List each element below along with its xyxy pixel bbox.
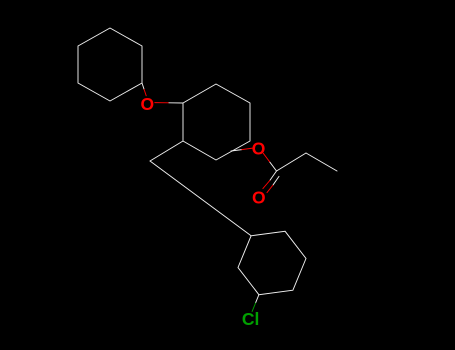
wire CH2-CH3 xyxy=(306,153,337,171)
wire C(mid ring)-CH2 benzylic xyxy=(150,141,183,161)
wire O2-C(carbonyl) white half xyxy=(270,162,277,171)
double bond C=O3 line 2 red half xyxy=(267,185,273,192)
wire C(ring3)-Cl green half xyxy=(252,303,255,311)
benzene ring C6 (top-left phenyl) xyxy=(78,28,142,101)
double bond C=O3 line 1 white half xyxy=(270,171,277,181)
svg-text:O: O xyxy=(140,94,154,114)
wire C(ring1)-O1 white half xyxy=(142,83,144,89)
wire C(ring1)-O1 red half at O xyxy=(144,89,146,95)
wire C(mid)-O2 ester red half xyxy=(242,148,253,150)
wire O2-C(carbonyl) red half xyxy=(263,153,270,162)
wire C(ring3)-Cl white half xyxy=(256,295,259,303)
wire O1-C(ring2) red half xyxy=(155,102,169,104)
double bond C=O3 line 2 white half xyxy=(273,176,279,185)
wire C(mid)-O2 ester white half xyxy=(231,150,242,151)
wire C(carbonyl)-CH2 xyxy=(277,153,307,171)
wire O1-C(ring2) white half xyxy=(169,102,183,104)
double bond C=O3 line 1 red half xyxy=(263,181,270,189)
cyclohexane ring C6 (bottom chlorophenyl ring) xyxy=(238,231,306,294)
cyclohexane ring C6 (middle ring) xyxy=(183,84,250,160)
svg-text:Cl: Cl xyxy=(242,309,260,329)
svg-text:O: O xyxy=(252,188,266,208)
wire CH2-C(ring3) long chain bond xyxy=(150,161,251,236)
svg-text:O: O xyxy=(252,139,266,159)
